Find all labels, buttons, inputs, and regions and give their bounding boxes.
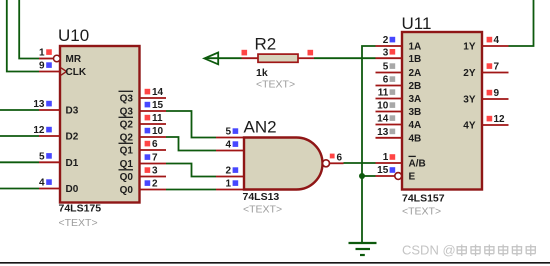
- svg-text:1: 1: [225, 179, 231, 190]
- R2 left state square red: [242, 50, 248, 56]
- U11 pin 6 state square gray: [390, 76, 396, 82]
- U11 pin 14 4A stub: [376, 124, 403, 126]
- svg-text:Q3: Q3: [120, 94, 134, 105]
- U11 pin 11 3A stub: [376, 98, 403, 100]
- svg-text:12: 12: [33, 125, 45, 136]
- U10 pin 1 MR stub: [39, 58, 53, 60]
- svg-text:4: 4: [39, 178, 45, 189]
- svg-text:11: 11: [378, 88, 389, 99]
- svg-text:U10: U10: [58, 26, 89, 45]
- U11 pin 13 4B stub: [376, 137, 403, 139]
- wire D0 input from left edge: [0, 188, 39, 190]
- svg-text:2: 2: [225, 166, 231, 177]
- U11 pin 15 E stub: [376, 175, 395, 177]
- svg-text:6: 6: [337, 153, 343, 164]
- svg-text:Q3: Q3: [120, 107, 134, 118]
- U10 pin 3 Q0-bar stub: [140, 176, 167, 178]
- input arrow terminal: [204, 53, 218, 65]
- U11 pin 9 3Y stub: [482, 98, 509, 100]
- svg-text:D2: D2: [66, 132, 79, 143]
- svg-text:4: 4: [494, 35, 500, 46]
- svg-text:5: 5: [39, 152, 45, 163]
- U11 pin 1 state square red: [390, 154, 396, 160]
- R2 right stub: [298, 57, 314, 59]
- svg-text:4A: 4A: [409, 120, 422, 131]
- svg-text:6: 6: [152, 139, 158, 150]
- U11 pin 12 4Y stub: [482, 124, 509, 126]
- svg-text:7: 7: [152, 153, 158, 164]
- svg-text:2A: 2A: [409, 68, 422, 79]
- AN2 pin 4 state square blue: [233, 141, 239, 147]
- U11 pin 10 state square gray: [390, 102, 396, 108]
- AN2 gate body: [244, 138, 323, 190]
- U10 pin 3 state square red: [145, 167, 151, 173]
- svg-text:AN2: AN2: [244, 118, 277, 137]
- svg-text:11: 11: [152, 113, 163, 124]
- U10 pin 1 state square red: [46, 49, 52, 55]
- svg-text:D1: D1: [66, 158, 79, 169]
- U11 pin 5 2A stub: [376, 72, 403, 74]
- U11 pin 3 1B stub: [376, 57, 403, 59]
- wire Q1 (U10 pin7) to AN2 pin2: [166, 164, 216, 177]
- svg-text:2: 2: [152, 179, 158, 190]
- svg-text:9: 9: [494, 88, 500, 99]
- U10 pin 10 state square blue: [145, 128, 151, 134]
- U11 pin 3 state square red: [390, 49, 396, 55]
- AN2 pin 5 state square blue: [233, 128, 239, 134]
- svg-text:R2: R2: [255, 35, 277, 54]
- svg-text:13: 13: [377, 127, 389, 138]
- wire MR vertical from top edge to U10 pin 1: [19, 0, 39, 59]
- U10 body: [60, 46, 140, 203]
- U10 pin 9 clock triangle: [61, 68, 67, 75]
- U11 pin 4 1Y stub: [482, 45, 509, 47]
- wire Q0 (U10 pin2) to AN2 pin1: [166, 189, 216, 191]
- U11 pin 11 state square gray: [390, 89, 396, 95]
- svg-text:9: 9: [39, 61, 45, 72]
- svg-text:1: 1: [39, 48, 45, 59]
- svg-text:<TEXT>: <TEXT>: [59, 217, 98, 229]
- svg-text:4: 4: [225, 140, 231, 151]
- U11 pin 14 state square gray: [390, 115, 396, 121]
- U10 pin 13 D3 stub: [39, 109, 60, 111]
- U10 pin 1 MR bubble: [54, 55, 61, 62]
- svg-text:1A: 1A: [409, 42, 422, 53]
- svg-text:<TEXT>: <TEXT>: [256, 79, 295, 91]
- U11 pin 6 2B stub: [376, 85, 403, 87]
- wire vertical net (U11 pin2 to ground): [362, 46, 376, 243]
- svg-text:1k: 1k: [256, 67, 268, 79]
- wire D3 input from left edge: [0, 109, 39, 111]
- svg-text:2: 2: [383, 35, 389, 46]
- U11 pin 9 state square red: [487, 90, 493, 96]
- AN2 output bubble: [323, 160, 330, 167]
- AN2 pin 6 state square red: [330, 154, 335, 159]
- wire AN2 output to U11 pin 1 A/B: [344, 162, 376, 164]
- svg-text:4B: 4B: [409, 133, 422, 144]
- U11 pin 7 state square red: [487, 63, 493, 69]
- svg-text:D0: D0: [66, 184, 79, 195]
- U10 pin 6 Q1-bar stub: [140, 149, 167, 151]
- ground symbol: [349, 242, 377, 244]
- AN2 pin 5 stub: [216, 137, 244, 139]
- U10 pin 13 state square blue: [46, 101, 52, 107]
- wire U11 pin 4 1Y to top edge: [509, 0, 534, 46]
- U11 body: [402, 32, 482, 190]
- AN2 pin 6 output stub: [330, 162, 344, 164]
- U10 pin 12 D2 stub: [39, 135, 60, 137]
- AN2 pin 1 stub: [216, 189, 244, 191]
- wire D2 input from left edge: [0, 135, 39, 137]
- U11 pin 10 3B stub: [376, 111, 403, 113]
- svg-text:MR: MR: [66, 54, 82, 65]
- U10 pin 4 state square blue: [46, 179, 52, 185]
- U11 pin 15 E bubble: [395, 173, 402, 180]
- U10 pin 5 state square blue: [46, 153, 52, 159]
- U10 pin 2 state square blue: [145, 180, 151, 186]
- svg-text:Q0: Q0: [120, 185, 134, 196]
- U11 pin 1 A/B stub: [376, 162, 403, 164]
- AN2 pin 1 state square blue: [233, 180, 239, 186]
- svg-text:14: 14: [377, 114, 389, 125]
- svg-text:CLK: CLK: [66, 67, 87, 78]
- U11 pin 7 2Y stub: [482, 72, 509, 74]
- wire D1 input from left edge: [0, 161, 39, 163]
- resistor R2 body: [258, 54, 298, 62]
- R2 right state square red: [308, 50, 314, 56]
- U10 pin 2 Q0 stub: [140, 189, 167, 191]
- svg-text:15: 15: [377, 165, 389, 176]
- svg-text:74LS13: 74LS13: [243, 191, 280, 203]
- U10 pin 6 state square red: [145, 141, 151, 147]
- svg-text:D3: D3: [66, 106, 79, 117]
- U11 pin 12 state square red: [487, 116, 493, 122]
- svg-text:10: 10: [377, 101, 389, 112]
- wire Q2 (U10 pin10) to AN2 pin4: [166, 137, 216, 151]
- svg-text:Q1: Q1: [120, 146, 134, 157]
- svg-text:1: 1: [383, 152, 389, 163]
- wire Q3 (U10 pin15) to AN2 pin5: [166, 111, 216, 138]
- U10 pin 15 state square blue: [145, 102, 151, 108]
- svg-text:Q2: Q2: [120, 120, 134, 131]
- wire junction to U11 pin 15 E: [362, 175, 376, 177]
- svg-text:1B: 1B: [409, 54, 422, 65]
- U10 pin 15 Q3 stub: [140, 110, 167, 112]
- U10 pin 11 Q2-bar stub: [140, 123, 167, 125]
- svg-text:14: 14: [152, 87, 164, 98]
- svg-text:74LS175: 74LS175: [59, 203, 102, 215]
- U11 pin 2 state square blue: [390, 37, 396, 43]
- U10 pin 7 Q1 stub: [140, 163, 167, 165]
- svg-text:Q1: Q1: [120, 159, 134, 170]
- U11 pin 13 state square gray: [390, 129, 396, 135]
- svg-text:3A: 3A: [409, 94, 422, 105]
- svg-text:<TEXT>: <TEXT>: [243, 204, 282, 216]
- U10 pin 7 state square blue: [145, 154, 151, 160]
- wire CLK vertical from top edge to U10 pin 9: [7, 0, 39, 72]
- svg-text:12: 12: [494, 114, 506, 125]
- svg-text:2Y: 2Y: [463, 68, 476, 79]
- U10 pin 14 state square red: [145, 89, 151, 95]
- svg-text:6: 6: [383, 75, 389, 86]
- svg-text:Q2: Q2: [120, 133, 134, 144]
- svg-text:3Y: 3Y: [463, 95, 476, 106]
- bottom border line: [0, 262, 550, 264]
- U11 pin 5 state square gray: [390, 63, 396, 69]
- svg-text:A/B: A/B: [409, 159, 426, 170]
- svg-text:Q0: Q0: [120, 172, 134, 183]
- AN2 pin 4 stub: [216, 150, 244, 152]
- svg-text:15: 15: [152, 100, 164, 111]
- svg-text:E: E: [409, 172, 416, 183]
- U10 pin 14 Q3-bar stub: [140, 97, 167, 99]
- wire arrow to R2: [205, 57, 242, 59]
- svg-text:1Y: 1Y: [463, 42, 476, 53]
- svg-text:4Y: 4Y: [463, 121, 476, 132]
- R2 left stub: [242, 57, 259, 59]
- U11 pin 15 state square blue: [390, 167, 396, 173]
- U11 pin 2 1A stub: [376, 45, 403, 47]
- svg-text:5: 5: [225, 127, 231, 138]
- svg-text:3: 3: [383, 47, 389, 58]
- svg-text:7: 7: [494, 62, 500, 73]
- U10 pin 9 CLK stub: [39, 71, 60, 73]
- svg-text:CSDN @: CSDN @: [402, 243, 456, 258]
- wire R2 to U11 pin 3 1B: [314, 57, 376, 59]
- svg-text:74LS157: 74LS157: [402, 192, 445, 204]
- AN2 pin 2 state square blue: [233, 167, 239, 173]
- svg-text:<TEXT>: <TEXT>: [402, 206, 441, 218]
- U10 pin 11 state square red: [145, 115, 151, 121]
- U10 pin 10 Q2 stub: [140, 136, 167, 138]
- svg-text:3B: 3B: [409, 107, 422, 118]
- U10 pin 5 D1 stub: [39, 161, 60, 163]
- AN2 pin 2 stub: [216, 176, 244, 178]
- U11 pin 4 state square red: [487, 37, 493, 43]
- svg-text:5: 5: [383, 62, 389, 73]
- svg-text:U11: U11: [402, 14, 432, 33]
- junction dot at E wire: [359, 173, 365, 179]
- U10 pin 12 state square blue: [46, 127, 52, 133]
- svg-text:2B: 2B: [409, 81, 422, 92]
- svg-text:10: 10: [152, 126, 164, 137]
- U10 pin 4 D0 stub: [39, 188, 60, 190]
- svg-text:13: 13: [33, 99, 45, 110]
- svg-text:3: 3: [152, 166, 158, 177]
- U10 pin 9 state square blue: [46, 62, 52, 68]
